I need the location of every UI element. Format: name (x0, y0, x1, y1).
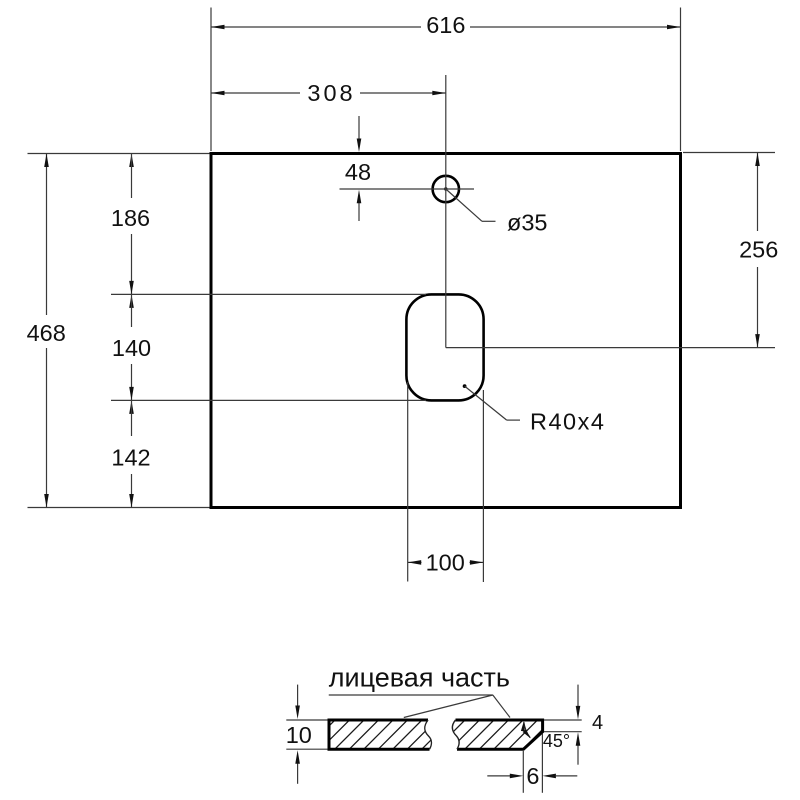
svg-text:48: 48 (345, 159, 371, 185)
svg-text:468: 468 (27, 320, 66, 346)
svg-text:4: 4 (592, 712, 603, 734)
svg-text:616: 616 (426, 12, 465, 38)
svg-text:100: 100 (426, 550, 465, 576)
svg-text:10: 10 (286, 722, 312, 748)
svg-text:186: 186 (111, 205, 150, 231)
svg-text:45°: 45° (543, 731, 570, 751)
svg-text:256: 256 (739, 237, 778, 263)
svg-text:ø35: ø35 (507, 210, 548, 236)
svg-text:лицевая часть: лицевая часть (329, 663, 510, 693)
svg-text:142: 142 (111, 445, 150, 471)
svg-text:140: 140 (112, 335, 151, 361)
svg-text:R40x4: R40x4 (530, 409, 605, 435)
svg-text:308: 308 (307, 80, 355, 106)
svg-text:6: 6 (526, 763, 539, 789)
